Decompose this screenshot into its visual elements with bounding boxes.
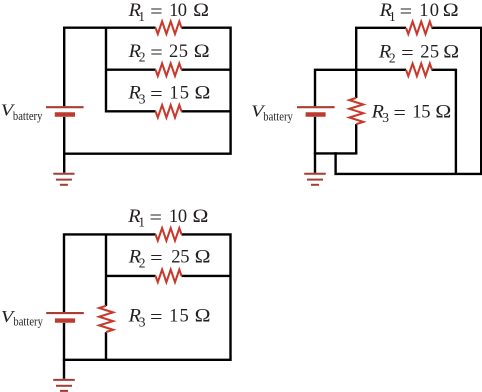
wire C: top wire right segment + right vertical + bottom wire xyxy=(63,234,231,359)
battery V (circuit B) long positive plate xyxy=(297,106,335,108)
wire A: R2 branch left segment xyxy=(106,68,156,70)
svg-text:Ω: Ω xyxy=(443,1,459,21)
label R1 = 10 ohm (circuit C) xyxy=(127,207,208,230)
battery V (circuit A) short negative plate xyxy=(55,112,75,116)
svg-text:=: = xyxy=(150,3,163,23)
svg-text:2: 2 xyxy=(171,248,180,268)
wire A: R2 branch right segment xyxy=(181,68,230,70)
wire C: R2 branch right segment xyxy=(182,275,231,277)
wire C: battery negative lead + ground stub xyxy=(63,323,65,379)
svg-text:3: 3 xyxy=(382,110,389,125)
wire A: battery negative lead down to bottom wire and ground stub xyxy=(63,117,65,173)
wire B: R2 branch left corner down to battery xyxy=(315,70,406,107)
svg-text:battery: battery xyxy=(13,108,43,123)
svg-text:=: = xyxy=(393,104,406,124)
svg-text:5: 5 xyxy=(180,248,189,268)
battery V (circuit B) short negative plate xyxy=(306,112,326,116)
label V battery (circuit C) xyxy=(1,307,43,329)
battery V (circuit C) long positive plate xyxy=(46,312,84,314)
wire C: inner vertical down to R3 xyxy=(105,234,107,306)
svg-text:3: 3 xyxy=(139,91,146,106)
svg-text:2: 2 xyxy=(420,43,429,63)
svg-text:Ω: Ω xyxy=(193,1,209,21)
svg-text:1: 1 xyxy=(169,207,178,227)
svg-text:Ω: Ω xyxy=(195,307,211,327)
svg-text:1: 1 xyxy=(169,84,178,104)
svg-text:1: 1 xyxy=(419,1,428,21)
label R3 = 15 ohm (circuit A) xyxy=(127,84,210,107)
battery V (circuit C) short negative plate xyxy=(55,318,75,322)
svg-text:Ω: Ω xyxy=(435,102,451,122)
svg-text:0: 0 xyxy=(178,207,187,227)
ground (circuit B) xyxy=(304,174,326,185)
ground (circuit A) xyxy=(53,174,74,185)
svg-text:2: 2 xyxy=(389,50,396,65)
resistor R2 (circuit C) zigzag xyxy=(156,270,182,283)
svg-text:1: 1 xyxy=(169,307,178,327)
svg-text:=: = xyxy=(400,3,413,23)
svg-text:0: 0 xyxy=(178,1,187,21)
wire B: inner bottom wire battery to R3 xyxy=(314,152,358,154)
svg-text:5: 5 xyxy=(180,307,189,327)
svg-text:battery: battery xyxy=(13,314,43,329)
svg-text:5: 5 xyxy=(430,43,439,63)
resistor R1 (circuit C) zigzag xyxy=(156,228,182,241)
svg-text:=: = xyxy=(150,308,163,328)
svg-text:2: 2 xyxy=(139,50,146,65)
svg-text:1: 1 xyxy=(138,9,145,24)
svg-text:Ω: Ω xyxy=(195,84,211,104)
svg-text:2: 2 xyxy=(139,255,146,270)
wire B: top wire right segment + outer right vertical + outer bottom wire xyxy=(336,28,482,174)
wire A: left vertical + top wire left segment xyxy=(64,28,155,107)
wire A: R3 branch right segment xyxy=(181,110,230,112)
label R1 = 10 ohm (circuit B) xyxy=(379,1,459,24)
label R3 = 15 ohm (circuit C) xyxy=(128,307,211,330)
label R1 = 10 ohm (circuit A) xyxy=(128,1,210,24)
svg-text:Ω: Ω xyxy=(193,207,209,227)
wire C: left vertical + top wire left segment xyxy=(64,234,156,312)
resistor R2 (circuit B) zigzag xyxy=(406,64,432,77)
svg-text:=: = xyxy=(401,44,414,64)
svg-text:=: = xyxy=(150,208,163,228)
resistor R3 (circuit A) zigzag xyxy=(156,105,182,118)
svg-text:1: 1 xyxy=(389,9,396,24)
svg-text:battery: battery xyxy=(263,108,293,123)
label R2 = 25 ohm (circuit C) xyxy=(128,248,211,271)
label R2 = 25 ohm (circuit B) xyxy=(378,43,459,66)
svg-text:1: 1 xyxy=(138,215,145,230)
svg-text:5: 5 xyxy=(180,84,189,104)
wire A: inner vertical node between branches xyxy=(105,28,107,113)
wire A: top wire right segment + right vertical + bottom wire xyxy=(63,28,231,154)
svg-text:0: 0 xyxy=(430,1,439,21)
wire C: R2 branch left segment xyxy=(106,275,156,277)
wire B: R2 branch right segment + vertical to outer bottom wire xyxy=(432,70,456,174)
battery V (circuit A) long positive plate xyxy=(46,106,84,108)
svg-text:5: 5 xyxy=(179,42,188,62)
resistor R3 (circuit C) vertical zigzag xyxy=(99,306,113,332)
svg-text:3: 3 xyxy=(139,314,146,329)
svg-text:2: 2 xyxy=(169,42,178,62)
svg-text:Ω: Ω xyxy=(443,43,459,63)
label R2 = 25 ohm (circuit A) xyxy=(128,42,210,65)
svg-text:=: = xyxy=(150,249,163,269)
wire B: battery negative lead + ground stub xyxy=(314,117,316,173)
resistor R2 (circuit A) zigzag xyxy=(156,63,182,76)
label V battery (circuit A) xyxy=(1,101,43,123)
wire B: R3 bottom lead xyxy=(355,124,357,153)
resistor R3 (circuit B) vertical zigzag xyxy=(349,98,363,124)
resistor R1 (circuit B) zigzag xyxy=(406,22,432,35)
svg-text:=: = xyxy=(150,43,163,63)
svg-text:Ω: Ω xyxy=(195,248,211,268)
resistor R1 (circuit A) zigzag xyxy=(156,21,182,34)
svg-text:=: = xyxy=(150,85,163,105)
svg-text:Ω: Ω xyxy=(194,42,210,62)
label R3 = 15 ohm (circuit B) xyxy=(371,102,452,125)
wire A: R3 branch left segment xyxy=(106,110,156,112)
svg-text:1: 1 xyxy=(412,102,421,122)
wire C: R3 bottom lead to bottom wire xyxy=(105,332,107,360)
label V battery (circuit B) xyxy=(251,102,293,124)
svg-text:5: 5 xyxy=(421,102,430,122)
wire B: top wire left segment + vertical down to R3 xyxy=(356,28,406,98)
ground (circuit C) xyxy=(53,380,75,391)
